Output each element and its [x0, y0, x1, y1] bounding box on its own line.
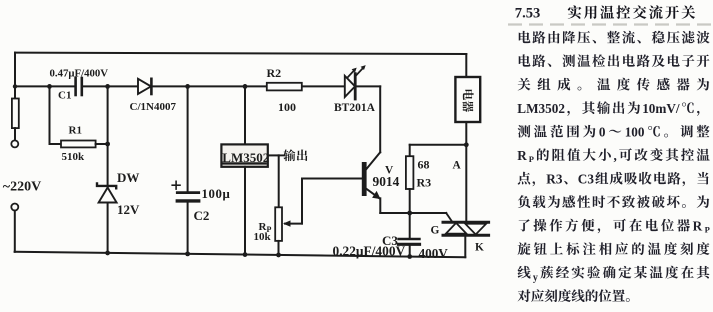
wire top rail [15, 53, 466, 54]
text line 8 [518, 171, 709, 186]
text line 5 [517, 101, 699, 116]
title 7.53 实用温控交流开关 [515, 5, 695, 21]
wire load top drop [465, 54, 467, 77]
junction node (IC supply tap) [243, 84, 248, 89]
svg-text:P: P [705, 224, 710, 234]
wire main line segment 2 [82, 85, 138, 87]
svg-text:0: 0 [599, 124, 606, 139]
wire pot bottom to rail [278, 241, 280, 255]
svg-text:100: 100 [278, 100, 296, 114]
junction node (main line left corner) [13, 84, 17, 88]
text line 3 [519, 54, 710, 67]
svg-text:LM3502: LM3502 [517, 101, 565, 116]
wire IC supply drop [244, 86, 246, 144]
junction node (A node) [464, 142, 469, 147]
svg-text:C3: C3 [578, 171, 595, 186]
diode C/1N4007 [138, 79, 151, 94]
label output arrow + 输出 [279, 149, 308, 161]
svg-text:C1: C1 [58, 90, 71, 102]
svg-text:68: 68 [418, 158, 430, 172]
text line 2 [519, 31, 710, 44]
triac VS [443, 222, 489, 235]
wire terminal to bottom rail [14, 211, 16, 252]
text line 10 [519, 218, 710, 234]
wire gate line [380, 212, 446, 214]
svg-text:R2: R2 [267, 66, 282, 80]
svg-text:0.22μF/400V: 0.22μF/400V [333, 244, 406, 259]
svg-text:R: R [517, 148, 527, 163]
svg-text:10k: 10k [254, 231, 272, 243]
wire A node to triac [465, 145, 467, 222]
svg-text:100: 100 [625, 124, 645, 139]
wire IC output [268, 154, 279, 156]
text line 11 [518, 242, 710, 255]
fuse FU (input dropper) [12, 99, 19, 129]
wire LED to collector drop [357, 85, 381, 87]
svg-text:K: K [475, 242, 484, 254]
wire collector vertical [379, 86, 381, 152]
svg-text:R: R [693, 218, 703, 233]
text line 4 [518, 78, 710, 91]
text line 7 [517, 148, 709, 164]
wire emitter drop [379, 198, 381, 213]
svg-text:G: G [431, 225, 440, 237]
svg-text:510k: 510k [62, 151, 86, 163]
resistor R2 100 [267, 83, 302, 91]
junction node (pot bottom) [276, 253, 281, 258]
wire triac to bottom rail [464, 235, 466, 257]
capacitor C3 0.22uF/400V [399, 213, 420, 257]
wire fuse to terminal [14, 128, 16, 140]
wire zener branch vertical [107, 86, 109, 253]
capacitor C1 0.47uF/400V [76, 78, 82, 95]
svg-text:7.53: 7.53 [515, 6, 541, 22]
wire R1 left stub [49, 86, 51, 144]
LED BT201A [345, 65, 366, 99]
wire A-node line [410, 144, 467, 146]
terminal L (AC live) [11, 140, 18, 147]
scan artifact under title [508, 23, 712, 25]
svg-text:9014: 9014 [373, 174, 400, 189]
svg-text:100μ: 100μ [202, 187, 231, 201]
wire gate diagonal [446, 213, 452, 221]
text line 12 [518, 266, 710, 284]
wire main line segment 3 [151, 85, 344, 87]
transistor V 9014 [362, 152, 381, 199]
terminal N (AC neutral) [11, 204, 18, 211]
svg-text:R3: R3 [417, 176, 432, 190]
zener diode DW 12V [97, 184, 117, 203]
svg-text:A: A [453, 160, 462, 172]
wire bottom rail [15, 252, 466, 257]
wire wiper riser [301, 179, 303, 224]
junction node (R1 left tap) [47, 84, 52, 89]
junction node (C3 bottom) [407, 254, 412, 259]
junction node (C2 bottom) [185, 251, 190, 256]
wire base line [302, 178, 362, 180]
text line 6 [518, 124, 710, 139]
resistor R3 68 [406, 145, 414, 213]
wire output to pot [278, 155, 280, 207]
resistor R1 510k [50, 141, 108, 148]
junction node R1 right end [105, 142, 110, 147]
wire main line segment 1 [15, 85, 75, 87]
svg-text:400V: 400V [419, 246, 449, 261]
svg-text:~220V: ~220V [3, 180, 41, 195]
wire load bottom drop [465, 122, 467, 145]
junction node (snubber mid / gate) [407, 211, 412, 216]
junction node (IC ground) [243, 252, 248, 257]
potentiometer RP 10k [275, 207, 302, 241]
svg-text:R3: R3 [546, 171, 563, 186]
wire left drop to fuse [14, 53, 16, 100]
svg-text:,: , [614, 148, 617, 163]
svg-text:C/1N4007: C/1N4007 [130, 101, 177, 113]
svg-text:BT201A: BT201A [334, 102, 376, 114]
op-amp/sensor IC U1 LM3502 [221, 144, 269, 166]
wire IC ground drop [244, 167, 246, 255]
junction node (zener bottom) [105, 251, 110, 256]
svg-text:P: P [529, 154, 534, 164]
svg-text:0.47μF/400V: 0.47μF/400V [50, 68, 109, 80]
svg-text:y: y [533, 272, 538, 283]
svg-text:DW: DW [117, 170, 139, 185]
svg-text:C2: C2 [194, 208, 210, 223]
svg-text:12V: 12V [117, 202, 140, 217]
junction node (R1 right / zener top) [105, 84, 110, 89]
svg-text:10mV/: 10mV/ [642, 101, 680, 116]
svg-text:R1: R1 [69, 125, 82, 137]
text line 9 [518, 195, 709, 208]
junction node (C2 tap) [185, 84, 190, 89]
text line 13 [518, 289, 630, 302]
capacitor C2 100u electrolytic [172, 86, 199, 254]
load box 电器 [455, 77, 480, 122]
